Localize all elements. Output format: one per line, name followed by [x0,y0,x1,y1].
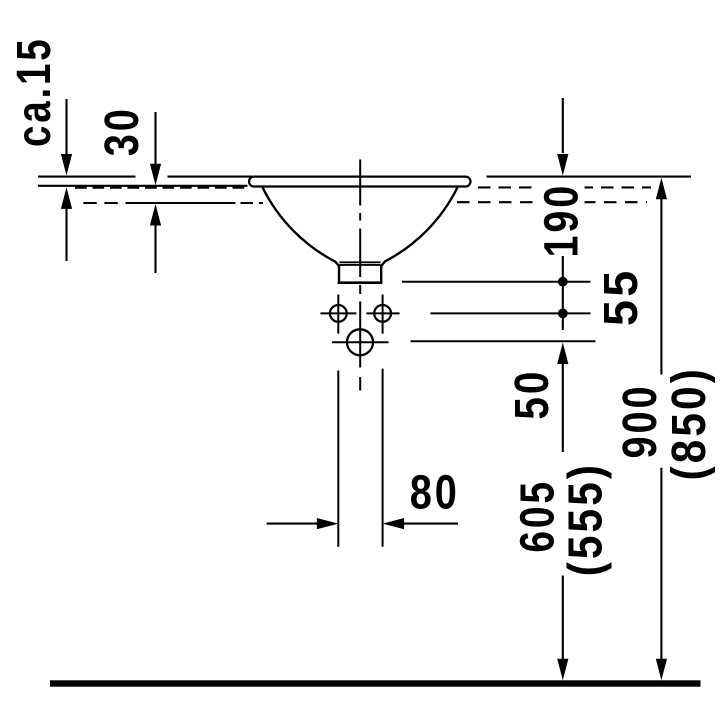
dimension 80 right arrow [383,518,458,529]
dimension ca.15 arrow down [61,99,72,176]
rim-top extension line right [487,176,692,178]
basin rim [249,177,471,187]
vertical centerline [359,160,361,391]
right 80-dim extension line [382,369,384,547]
chain dimension line top shaft (190) [557,98,568,176]
dimension ca.15 arrow up [61,187,72,261]
drain flange double line lower [339,264,380,266]
chain dimension line mid segment [562,256,564,330]
left faucet hole circle [330,305,347,322]
extension line from faucet holes [431,312,591,314]
white backing for label 190 [538,181,585,211]
dimension 900 lower segment [660,468,662,660]
drain bottom line [338,281,383,284]
basin bowl outline [263,187,458,282]
svg-text:50: 50 [506,369,559,420]
svg-text:(850): (850) [663,366,716,481]
counter bottom extension line (30 dim) [131,202,236,204]
right circle vertical crosshair [382,295,384,334]
chain dot lower [558,309,568,319]
svg-text:80: 80 [410,467,460,520]
extension line from drain hole [411,340,596,342]
svg-text:190: 190 [535,183,588,258]
svg-text:55: 55 [595,267,648,326]
dimension 605 up arrow [557,343,568,453]
svg-text:(555): (555) [560,462,613,577]
counter surface extension line far left [38,185,248,187]
left circle horizontal crosshair [320,312,356,314]
countertop bottom dashed line left [83,202,131,204]
right circle horizontal crosshair [367,312,400,314]
dimension 900 down arrow [656,659,667,681]
rim-top extension line left segment a [38,176,136,178]
drain flange double line upper [339,261,380,263]
svg-text:900: 900 [614,384,667,459]
dimension 605 down arrow [557,659,568,681]
rim-top extension line left segment b [168,176,253,178]
right faucet hole circle [374,305,391,322]
countertop bottom dashed line mid [241,202,264,204]
chain dot upper [558,277,568,287]
svg-text:30: 30 [96,106,149,156]
floor line [50,680,701,686]
dimension 80 left arrow [267,518,339,529]
dimension 30 arrow down [150,112,161,185]
drain hole circle [347,329,373,355]
svg-text:605: 605 [511,479,564,553]
drain circle horizontal crosshair [332,341,389,343]
countertop bottom dashed line right [457,201,647,203]
countertop surface thick dashed line left [75,186,246,189]
svg-text:ca.15: ca.15 [8,36,61,147]
countertop surface dashed line right [478,186,651,188]
left 80-dim extension line [337,371,339,547]
left circle vertical crosshair [337,295,339,334]
extension line from drain bottom [402,281,591,283]
dimension 30 arrow up [150,204,161,273]
dimension 900 up arrow [656,178,667,375]
dimension 605 lower segment [562,576,564,661]
